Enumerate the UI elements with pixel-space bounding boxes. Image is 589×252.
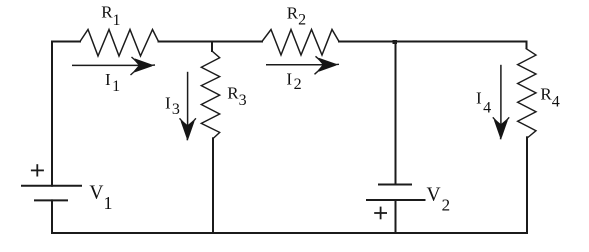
wire V2 bottom vertical [395, 200, 397, 233]
resistor R1 [80, 30, 159, 57]
battery V2 plate short negative [379, 184, 411, 186]
wire R1 to node A [159, 41, 213, 43]
svg-text:V1: V1 [89, 183, 112, 213]
wire node A to R3 [211, 42, 213, 52]
svg-text:R3: R3 [227, 84, 246, 110]
svg-text:I2: I2 [286, 70, 301, 94]
wire node B to V2 [395, 42, 397, 185]
wire left branch vertical [51, 42, 53, 186]
battery V2 plate long positive [367, 199, 425, 201]
svg-text:I3: I3 [165, 94, 180, 119]
resistor R4 [518, 49, 536, 138]
wire top-left horizontal [52, 41, 80, 43]
resistor R2 [262, 30, 339, 56]
svg-text:R4: R4 [540, 85, 559, 111]
wire R2 to node B [339, 41, 396, 43]
svg-text:V2: V2 [427, 184, 451, 214]
wire node B to top-right corner [396, 41, 527, 43]
plus sign V1 [32, 165, 43, 176]
wire bottom horizontal [52, 232, 527, 234]
svg-text:I1: I1 [105, 70, 120, 95]
svg-text:R1: R1 [101, 3, 120, 29]
resistor R3 [201, 51, 219, 138]
wire R3 bottom vertical [212, 138, 214, 233]
current arrow I3 [180, 72, 196, 141]
svg-text:I4: I4 [476, 88, 491, 116]
wire V1 bottom vertical [51, 200, 53, 233]
wire R4 bottom vertical [526, 137, 528, 233]
current arrow I2 [266, 56, 339, 74]
plus sign V2 [375, 208, 386, 219]
svg-text:R2: R2 [287, 3, 306, 28]
junction node B dot [393, 40, 398, 44]
wire top-right to R4 [526, 42, 528, 49]
wire node A to R2 [212, 41, 262, 43]
current arrow I1 [72, 57, 155, 75]
current arrow I4 [493, 65, 509, 140]
battery V1 plate short negative [35, 199, 67, 201]
battery V1 plate long positive [22, 185, 81, 187]
